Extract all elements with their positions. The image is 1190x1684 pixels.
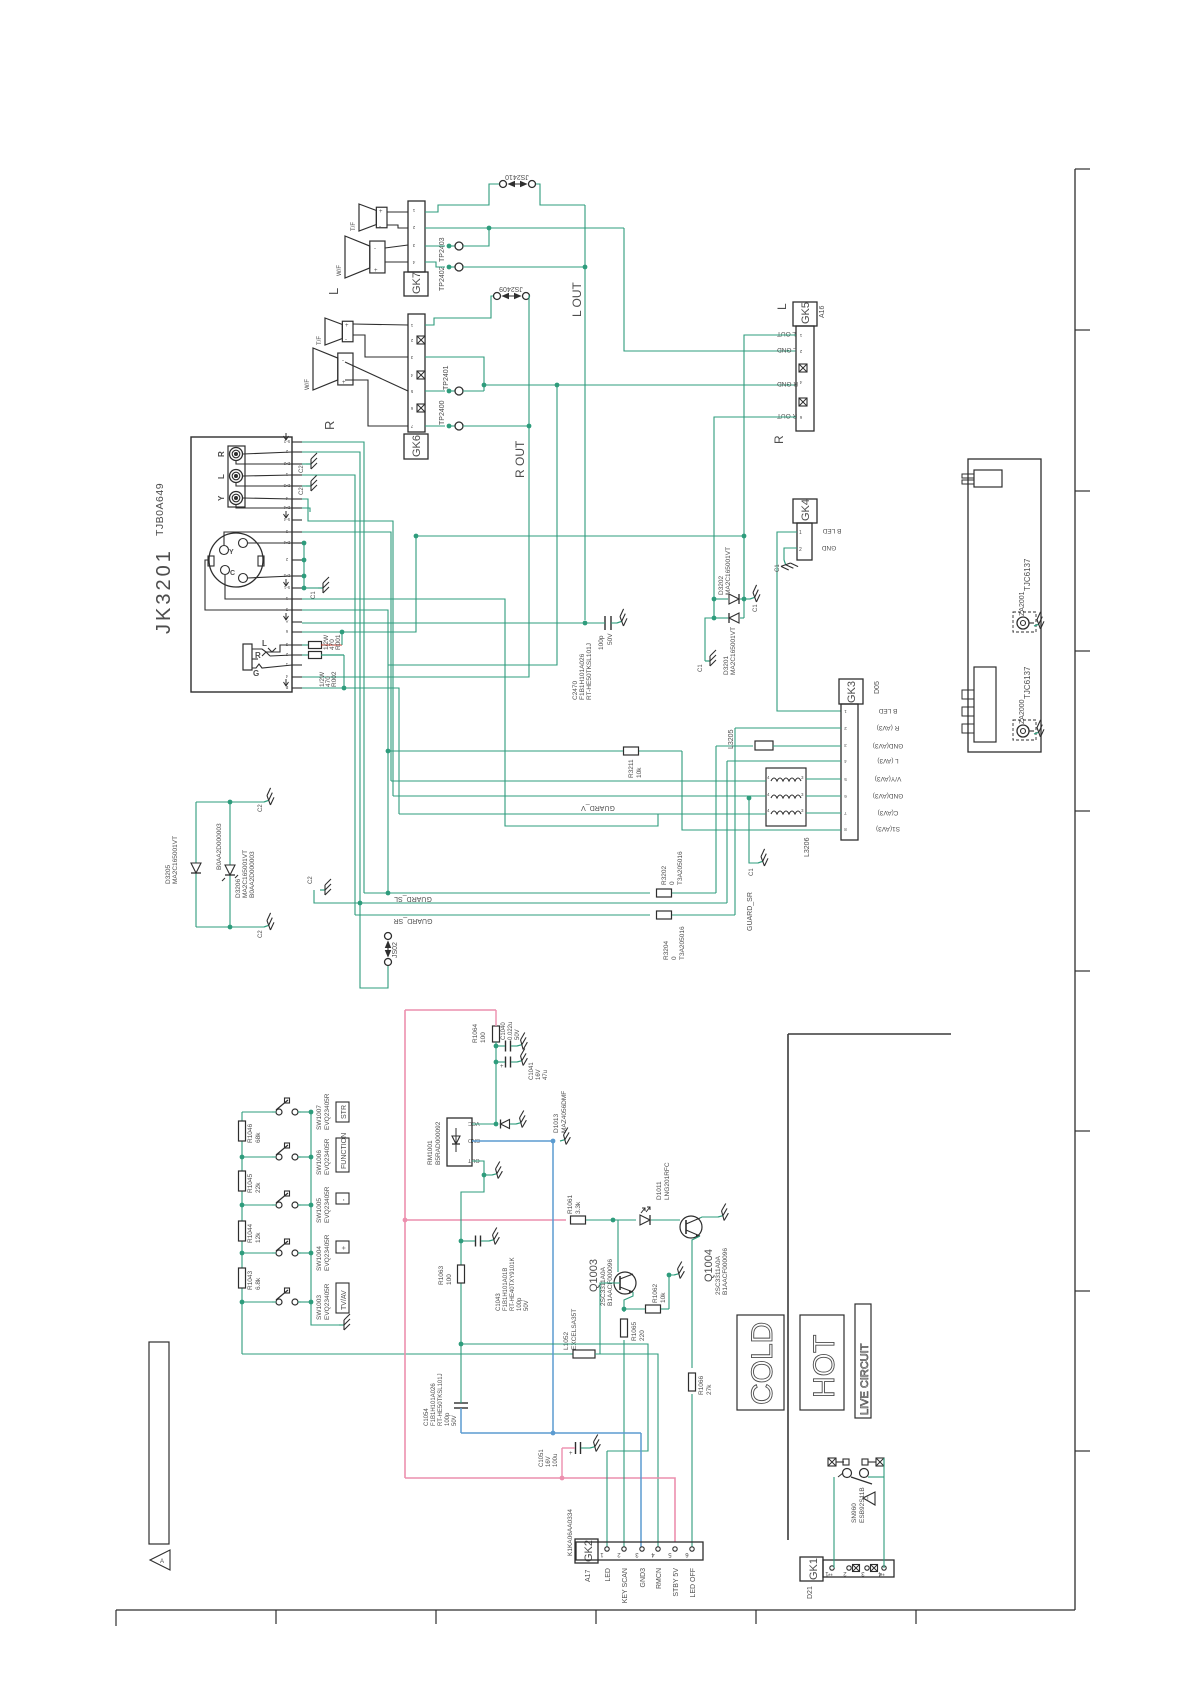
svg-text:22k: 22k xyxy=(255,1182,262,1193)
svg-text:GUARD_SR: GUARD_SR xyxy=(394,917,433,924)
label C1051 xyxy=(539,1449,559,1467)
svg-text:D-2: D-2 xyxy=(283,461,290,466)
svg-text:TV/AV: TV/AV xyxy=(341,1290,348,1310)
label GK2 RMCN xyxy=(656,1568,663,1589)
svg-text:GK5: GK5 xyxy=(800,302,812,324)
connector GK5 label box xyxy=(793,302,817,326)
svg-text:GUARD_SL: GUARD_SL xyxy=(394,895,432,902)
label D1013 xyxy=(553,1091,568,1133)
svg-text:GUARD_SR: GUARD_SR xyxy=(747,892,754,931)
svg-text:-: - xyxy=(374,246,376,252)
svg-text:100p: 100p xyxy=(517,1297,523,1311)
RCA jack L xyxy=(230,470,243,483)
label D1011 xyxy=(656,1162,671,1200)
svg-text:RM1001: RM1001 xyxy=(427,1140,434,1165)
switch SW1005 xyxy=(272,1191,301,1208)
S-video connector circle xyxy=(208,533,264,587)
svg-text:100p: 100p xyxy=(445,1412,451,1426)
inductor L3205 xyxy=(716,741,841,750)
label L3206 xyxy=(804,837,811,857)
connector GK3 pin header xyxy=(841,704,858,840)
ferrite bead GK5 pin5 xyxy=(799,398,807,406)
svg-text:K1KA06AA0334: K1KA06AA0334 xyxy=(567,1509,574,1556)
wire svideo pins to header xyxy=(205,532,292,610)
resistor R1045 xyxy=(239,1171,246,1191)
svg-text:Q1003: Q1003 xyxy=(588,1259,600,1292)
svg-text:RMCN: RMCN xyxy=(656,1568,663,1589)
svg-text:R1043: R1043 xyxy=(247,1270,254,1290)
svg-text:GK2: GK2 xyxy=(583,1540,595,1562)
test point TP2403 xyxy=(447,242,463,250)
resistor R1043 xyxy=(239,1268,246,1288)
connector GK6 label box xyxy=(404,434,428,459)
svg-text:100p: 100p xyxy=(598,635,605,650)
wire pin475 trunk C xyxy=(302,475,355,915)
svg-text:A16: A16 xyxy=(819,305,826,318)
headphone contact R xyxy=(252,651,270,660)
svg-text:D-4: D-4 xyxy=(283,540,290,545)
transistor Q1004 xyxy=(680,1216,702,1238)
svg-text:T3A205016: T3A205016 xyxy=(679,926,686,960)
svg-text:S1(AV3): S1(AV3) xyxy=(876,825,900,832)
label R channel xyxy=(322,421,337,430)
svg-text:+: + xyxy=(345,323,349,329)
speaker T/F left xyxy=(351,204,387,231)
label D05 xyxy=(874,681,881,694)
wire GK3 pin4 xyxy=(727,760,841,762)
svg-text:R (AV3): R (AV3) xyxy=(877,724,900,731)
wire SW1005 taps xyxy=(242,1203,313,1208)
revision box xyxy=(149,1342,169,1544)
svg-text:68k: 68k xyxy=(255,1132,262,1143)
key label box STR xyxy=(336,1102,349,1122)
resistor R1063 xyxy=(458,1265,465,1283)
svg-text:R1063: R1063 xyxy=(438,1265,445,1285)
wire GK4 pin1 B LED to GK3 xyxy=(777,532,841,711)
label D21 xyxy=(807,1586,814,1599)
label R1064 xyxy=(472,1023,487,1043)
wire SW1006 taps xyxy=(242,1155,313,1160)
svg-text:OUT: OUT xyxy=(467,1157,479,1163)
label L jack xyxy=(217,474,226,479)
label D3206 part1 xyxy=(216,823,223,870)
svg-text:C1: C1 xyxy=(311,591,317,599)
JK3201 pin stubs xyxy=(283,439,302,690)
ground C2 guard xyxy=(308,876,360,903)
svg-text:RT-HE50TKSL101J: RT-HE50TKSL101J xyxy=(438,1373,444,1426)
label R GND pin4 xyxy=(777,380,798,387)
label R1044 xyxy=(247,1223,262,1243)
wire JS02 bottom return xyxy=(360,903,388,988)
wire RCA L to pins xyxy=(236,475,292,486)
label C1054 xyxy=(424,1373,458,1426)
svg-text:STBY 5V: STBY 5V xyxy=(673,1568,680,1597)
wire R1065 to GK2 pin2 xyxy=(623,1340,625,1547)
wire R3202 up xyxy=(715,746,717,893)
label R001 xyxy=(323,634,342,650)
svg-text:EVQ23405R: EVQ23405R xyxy=(324,1093,331,1130)
svg-text:JS02: JS02 xyxy=(392,942,399,958)
svg-text:ZA2000: ZA2000 xyxy=(1019,699,1026,724)
wire W/F to GK6 diagonal xyxy=(345,362,408,426)
svg-text:R3204: R3204 xyxy=(663,940,670,960)
label GK2 LED OFF xyxy=(690,1568,697,1598)
label C2 row464 xyxy=(299,465,305,473)
wire GK7 pin3 to TP2403 xyxy=(425,228,489,246)
label Q1003 xyxy=(588,1259,614,1306)
wire R1066 to GK2 pin6 xyxy=(691,1394,693,1547)
RCA jack Y xyxy=(230,492,243,505)
label SW1004 xyxy=(316,1234,331,1271)
test point TP2400 xyxy=(447,422,463,430)
label ZA2000 xyxy=(1019,699,1026,724)
label R1045 xyxy=(247,1173,262,1193)
svg-text:F1B1H101A026: F1B1H101A026 xyxy=(431,1383,437,1426)
RCA jack R xyxy=(230,448,243,461)
resistor R1061 xyxy=(571,1216,614,1224)
label SW1007 xyxy=(316,1093,331,1130)
wire diode junctions xyxy=(712,536,747,620)
resistor R1062 xyxy=(624,1305,669,1313)
svg-text:47u: 47u xyxy=(543,1070,549,1080)
connector tab bottom xyxy=(962,667,996,742)
label R002 xyxy=(319,671,338,687)
label GUARD_SL xyxy=(394,895,432,902)
test point TP2401 xyxy=(447,387,463,395)
label TJC6137 upper xyxy=(1023,558,1032,591)
svg-text:B LED: B LED xyxy=(878,707,897,714)
test point TP2402 xyxy=(447,263,463,271)
svg-text:27k: 27k xyxy=(706,1384,713,1395)
svg-text:GK1: GK1 xyxy=(808,1558,820,1580)
svg-text:L: L xyxy=(326,288,341,295)
svg-text:R1065: R1065 xyxy=(631,1321,638,1341)
capacitor C1043 xyxy=(461,1228,501,1247)
svg-text:16V: 16V xyxy=(536,1069,542,1080)
svg-text:C1054: C1054 xyxy=(424,1408,430,1426)
wire GK7 pin4 to TP2402 to L OUT trunk xyxy=(425,262,585,267)
svg-text:10k: 10k xyxy=(636,767,643,778)
label GK3 GND(AV3) xyxy=(873,742,904,749)
svg-text:TP2401: TP2401 xyxy=(443,365,450,390)
wire GK6 pin1 to JS2409 xyxy=(425,296,493,325)
wire GK5 pin1 L OUT xyxy=(742,335,796,599)
svg-text:C1: C1 xyxy=(775,564,781,572)
wire GK2 pin1 LED xyxy=(606,1451,608,1547)
svg-text:12k: 12k xyxy=(255,1232,262,1243)
svg-text:STR: STR xyxy=(341,1105,348,1119)
label GK3 R (AV3) xyxy=(877,724,900,731)
wire pink bottom to GK2 pin5 xyxy=(405,1476,675,1542)
key label box + xyxy=(336,1241,349,1253)
label D3205 xyxy=(165,836,179,884)
svg-text:220: 220 xyxy=(639,1330,646,1341)
warning triangle xyxy=(863,1492,875,1505)
wire SN960 to GK1 pin1 xyxy=(833,1477,835,1568)
label C2 top xyxy=(258,804,264,812)
svg-text:TJC6137: TJC6137 xyxy=(1023,666,1032,699)
connector GK1 label box xyxy=(800,1557,823,1581)
diode D3205 xyxy=(191,863,201,873)
svg-text:D1011: D1011 xyxy=(656,1181,663,1200)
svg-text:W/F: W/F xyxy=(305,379,311,390)
headphone contact L xyxy=(252,639,276,652)
label GK3 GND(AV3) xyxy=(873,792,904,799)
svg-text:50V: 50V xyxy=(515,1029,521,1040)
wire rail y1344 xyxy=(461,1344,648,1451)
svg-text:Y: Y xyxy=(217,495,226,501)
svg-text:RT-HE50TKSL101J: RT-HE50TKSL101J xyxy=(586,643,593,700)
svg-text:GND: GND xyxy=(468,1137,480,1143)
S-video pin bottom right xyxy=(239,574,248,583)
label GK3 B LED xyxy=(878,707,897,714)
wire pin677 R OUT to JK xyxy=(0,0,1,1)
JK3201 connector body xyxy=(191,437,292,692)
inductor L3206 coils xyxy=(767,775,804,814)
label C2 bottom xyxy=(258,930,264,938)
svg-text:D1013: D1013 xyxy=(553,1113,560,1133)
svg-text:100: 100 xyxy=(480,1032,487,1043)
svg-text:RT-HE40TXY9101K: RT-HE40TXY9101K xyxy=(510,1257,516,1311)
capacitor C1054 xyxy=(454,1344,468,1433)
svg-text:D3201: D3201 xyxy=(723,655,730,675)
ferrite bead GK6 pin6 xyxy=(417,404,425,412)
svg-text:**: ** xyxy=(880,1574,885,1580)
svg-text:TJC6137: TJC6137 xyxy=(1023,558,1032,591)
connector GK4 pin header xyxy=(797,523,812,560)
svg-text:R3202: R3202 xyxy=(661,865,668,885)
svg-text:D3205: D3205 xyxy=(165,864,172,884)
IC RM1001 box xyxy=(447,1118,472,1166)
svg-text:R: R xyxy=(772,435,786,444)
wire R GND branch down xyxy=(388,385,557,665)
svg-text:C1043: C1043 xyxy=(496,1293,502,1311)
svg-text:GK7: GK7 xyxy=(411,272,423,294)
label R jack xyxy=(217,451,226,457)
label A17 xyxy=(585,1569,592,1582)
wire blue GND vertical xyxy=(552,1141,554,1433)
diode D1013 xyxy=(501,1111,528,1129)
label R1062 xyxy=(652,1283,667,1303)
svideo ground bus C1 xyxy=(302,541,329,599)
wire GK5 pin6 R OUT xyxy=(712,417,796,618)
svg-text:D-4: D-4 xyxy=(283,505,290,510)
wire GND pin blue xyxy=(472,1128,572,1146)
label R OUT xyxy=(513,440,527,478)
label R1065 xyxy=(631,1321,646,1341)
svg-text:COLD: COLD xyxy=(746,1322,779,1405)
jumper JS2409 xyxy=(494,293,530,300)
wire pin688 net xyxy=(302,688,399,814)
svg-text:L1052: L1052 xyxy=(563,1332,570,1350)
label K1KA06AA0334 xyxy=(567,1509,574,1556)
label GK3 L (AV3) xyxy=(877,757,898,764)
page border bottom line xyxy=(116,1609,1075,1611)
svg-text:LED: LED xyxy=(605,1568,612,1582)
svg-text:50V: 50V xyxy=(524,1300,530,1311)
connector GK2 pin header xyxy=(576,1542,703,1560)
label GK2 LED xyxy=(605,1568,612,1582)
label GND gk4 xyxy=(821,544,836,551)
label ZA2001 xyxy=(1019,591,1026,616)
svg-text:C2: C2 xyxy=(258,930,264,938)
svg-text:D-3: D-3 xyxy=(283,483,290,488)
svg-text:SW1004: SW1004 xyxy=(316,1246,323,1271)
GK2 pins xyxy=(600,1547,695,1557)
label R3202 xyxy=(661,851,684,885)
svg-text:L: L xyxy=(217,474,226,479)
label TJC6137 lower xyxy=(1023,666,1032,699)
svg-text:SW1006: SW1006 xyxy=(316,1150,323,1175)
svg-text:ZA2001: ZA2001 xyxy=(1019,591,1026,616)
wire SW1003 taps xyxy=(242,1300,313,1305)
label HOT box xyxy=(800,1315,844,1410)
JK3201 pin arrows xyxy=(284,433,289,686)
svg-text:+: + xyxy=(569,1451,573,1457)
wire R3211 to GK3 pin8 xyxy=(682,751,841,830)
resistor R3204 xyxy=(657,911,736,919)
label GK2 GND3 xyxy=(640,1568,647,1588)
svg-text:F1B1H101A01B: F1B1H101A01B xyxy=(503,1268,509,1311)
svg-text:B1AACF000096: B1AACF000096 xyxy=(722,1248,729,1295)
svg-text:R1066: R1066 xyxy=(698,1375,705,1395)
svg-text:2SC3311A0A: 2SC3311A0A xyxy=(600,1266,607,1306)
wire L OUT trunk vertical xyxy=(583,205,588,625)
svg-text:T/F: T/F xyxy=(317,336,323,345)
wire pin442 trunk A xyxy=(302,442,364,893)
label L1052 xyxy=(563,1309,578,1350)
label LIVE CIRCUIT box xyxy=(855,1304,871,1418)
resistor R002 xyxy=(302,652,344,659)
key ladder bottom rail xyxy=(242,1353,570,1355)
svg-text:C1: C1 xyxy=(749,868,755,876)
label SN960 xyxy=(851,1487,866,1523)
wire SW1004 taps xyxy=(242,1251,313,1256)
GK1 pins xyxy=(825,1565,887,1581)
svg-text:B1AACF000096: B1AACF000096 xyxy=(607,1259,614,1306)
wire x727 guard xyxy=(726,761,728,903)
svg-text:FUNCTION: FUNCTION xyxy=(341,1133,348,1169)
svg-text:MAZ4056DMF: MAZ4056DMF xyxy=(561,1091,568,1133)
key label box TV/AV xyxy=(336,1283,349,1313)
label GK3 S1(AV3) xyxy=(876,825,900,832)
svg-text:EVQ23405R: EVQ23405R xyxy=(324,1138,331,1175)
svg-text:B0AA2D000003: B0AA2D000003 xyxy=(216,823,223,870)
svg-text:VCC: VCC xyxy=(468,1120,480,1126)
svg-text:ESB92S11B: ESB92S11B xyxy=(859,1487,866,1523)
svg-text:**: ** xyxy=(828,1574,833,1580)
wire SN960 to GK1 pin4 xyxy=(868,1458,884,1568)
label TP2403 xyxy=(439,237,446,262)
svg-text:LED OFF: LED OFF xyxy=(690,1568,697,1598)
label R1046 xyxy=(247,1123,262,1143)
svg-text:L (AV3): L (AV3) xyxy=(877,757,898,764)
svg-text:TP2402: TP2402 xyxy=(439,266,446,291)
svg-text:SN960: SN960 xyxy=(851,1503,858,1523)
wire Q1004 base to R1066 xyxy=(692,1236,700,1368)
label L3205 xyxy=(728,729,735,749)
svg-text:D-5: D-5 xyxy=(283,573,290,578)
wire R002 dropper xyxy=(342,655,347,690)
svg-text:R1064: R1064 xyxy=(472,1023,479,1043)
switch SW1004 xyxy=(272,1239,301,1256)
wire x735 guard xyxy=(734,728,736,915)
label SW1006 xyxy=(316,1138,331,1175)
label Q1004 xyxy=(703,1248,729,1295)
svg-text:JS2410: JS2410 xyxy=(505,173,529,180)
svg-text:1: 1 xyxy=(799,530,802,536)
svg-text:C2: C2 xyxy=(299,465,305,473)
separator line hot cold xyxy=(788,1034,951,1540)
wire pin452 trunk B xyxy=(302,452,360,903)
diode D3206 xyxy=(222,865,238,881)
svg-text:C1: C1 xyxy=(698,664,704,672)
connector GK5 pin header xyxy=(796,326,814,431)
svg-text:50V: 50V xyxy=(607,633,614,645)
svg-text:-: - xyxy=(379,224,381,230)
headphone jack body xyxy=(243,644,252,670)
label C1043 xyxy=(496,1257,530,1311)
wire pin499 Y net xyxy=(302,499,418,796)
svg-text:T/F: T/F xyxy=(351,222,357,231)
svg-text:SW1005: SW1005 xyxy=(316,1198,323,1223)
jumper JS2410 xyxy=(500,181,536,188)
wire pin610 net xyxy=(302,610,390,893)
svg-text:10k: 10k xyxy=(660,1292,667,1303)
svg-text:100u: 100u xyxy=(553,1454,559,1467)
svg-text:2SC3311A0A: 2SC3311A0A xyxy=(715,1255,722,1295)
switch SW1007 xyxy=(272,1098,301,1115)
label C2 row486 xyxy=(299,487,305,495)
ferrite bead GK6 pin2 xyxy=(417,336,425,344)
svg-text:W/F: W/F xyxy=(337,265,343,276)
svg-text:D3206: D3206 xyxy=(235,878,242,898)
label JS2409 xyxy=(499,285,523,292)
label COLD box xyxy=(737,1315,784,1410)
svg-text:L: L xyxy=(775,303,789,310)
wire pin508 xyxy=(302,508,310,512)
label GUARD_SR vertical xyxy=(747,892,754,931)
wire L3206 left pin6 net xyxy=(399,813,766,815)
svg-text:LIVE CIRCUIT: LIVE CIRCUIT xyxy=(859,1343,871,1415)
label L OUT xyxy=(570,281,584,317)
terminal ZA2000 xyxy=(1013,720,1046,740)
wire R001 riser xyxy=(340,630,345,645)
label C2470 value xyxy=(598,633,614,650)
svg-text:B0AA2D000003: B0AA2D000003 xyxy=(249,851,256,898)
svg-text:GND(AV3): GND(AV3) xyxy=(873,742,904,749)
svg-text:D05: D05 xyxy=(874,681,881,694)
svg-text:HOT: HOT xyxy=(808,1335,841,1398)
svg-text:C1041: C1041 xyxy=(529,1062,535,1080)
diode D3202 xyxy=(714,594,744,604)
resistor R1064 xyxy=(493,1010,500,1124)
svg-text:L3205: L3205 xyxy=(728,729,735,749)
svg-text:SW1007: SW1007 xyxy=(316,1105,323,1130)
wire x749 to lower ground xyxy=(747,796,770,876)
svg-text:100: 100 xyxy=(446,1274,453,1285)
svg-text:GK6: GK6 xyxy=(411,435,423,457)
svg-text:L3206: L3206 xyxy=(804,837,811,857)
wire Q1004 emitter to ground xyxy=(700,1204,730,1222)
label R3211 xyxy=(628,759,643,778)
wire Q1003 base xyxy=(600,1283,620,1354)
svg-text:L OUT: L OUT xyxy=(570,281,584,317)
svg-text:SW1003: SW1003 xyxy=(316,1295,323,1320)
svg-text:MA2C165001VT: MA2C165001VT xyxy=(172,836,179,884)
capacitor C1041 electrolytic xyxy=(494,1049,529,1070)
capacitor C2470 xyxy=(585,609,629,630)
